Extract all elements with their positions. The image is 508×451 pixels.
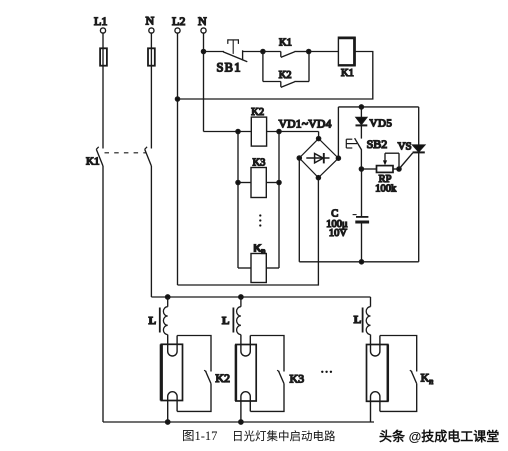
- contactor K1 main contact pole 2: [145, 147, 152, 166]
- svg-text:头条 @技成电工课堂: 头条 @技成电工课堂: [379, 429, 499, 444]
- starter contact K2 loop lamp1: [177, 336, 230, 412]
- wire N2 drop: [203, 33, 205, 131]
- svg-text:100k: 100k: [375, 183, 397, 194]
- fluorescent lamp 1: [161, 335, 182, 422]
- DC bottom rail: [299, 261, 418, 263]
- wire K2 coil to bridge: [267, 131, 319, 133]
- node VD5 tap: [359, 105, 363, 109]
- relay coil K3: [238, 157, 279, 197]
- fuse FU2: [148, 48, 155, 65]
- svg-text:VD1~VD4: VD1~VD4: [279, 118, 332, 130]
- contact K2 aux (NO) parallel branch: [263, 52, 309, 88]
- svg-text:SB1: SB1: [217, 60, 242, 74]
- node bridge right: [336, 156, 340, 160]
- svg-text:N: N: [198, 14, 207, 28]
- wire bridge right up to DC rail: [337, 107, 339, 158]
- vertical ellipsis between coils: [259, 214, 261, 226]
- bottom bus: [103, 421, 374, 423]
- wire K1 coil to return: [178, 52, 373, 100]
- wire N2 to SB1: [204, 51, 225, 53]
- svg-text:10V: 10V: [329, 228, 348, 239]
- node bridge bottom: [316, 176, 320, 180]
- svg-text:SB2: SB2: [367, 137, 388, 151]
- capacitor C 100u 10V: [326, 169, 369, 262]
- contactor K1 main contact pole 1: [86, 147, 103, 168]
- ballast L1 lamp1: [149, 297, 168, 335]
- svg-text:L2: L2: [172, 14, 185, 28]
- node C bottom: [359, 260, 363, 264]
- lamp bus: [151, 296, 370, 298]
- node bridge left: [297, 156, 301, 160]
- node parallel left: [261, 49, 265, 53]
- horizontal ellipsis between lamps: [321, 371, 332, 373]
- ballast L2 lamp2: [222, 297, 241, 335]
- svg-text:Kn: Kn: [421, 370, 434, 386]
- fuse FU1: [100, 48, 107, 65]
- node N2/SB1 junction: [201, 49, 205, 53]
- wire N2 to coil bus: [204, 131, 252, 133]
- svg-text:VS: VS: [398, 141, 412, 153]
- wire bridge left down rail: [298, 158, 300, 262]
- svg-text:K2: K2: [279, 70, 292, 81]
- relay coil K1: [338, 37, 356, 79]
- svg-text:C: C: [331, 208, 338, 219]
- relay coil Kn: [238, 243, 279, 283]
- wire to K1 coil: [309, 51, 339, 53]
- wire L2 drop: [177, 33, 179, 285]
- diode VD5: [356, 107, 393, 139]
- thyristor VS: [398, 107, 426, 262]
- wire L1 to bottom bus: [102, 166, 104, 422]
- node parallel right: [307, 49, 311, 53]
- node coil bus right top: [277, 129, 281, 133]
- svg-text:L: L: [222, 315, 229, 327]
- wire N1 drop to fuse: [150, 33, 152, 66]
- wire SB1 to K1 aux: [243, 51, 263, 53]
- wire N1 fuse to K1 contact: [150, 66, 152, 149]
- fluorescent lamp 3: [367, 335, 388, 422]
- svg-text:VD5: VD5: [370, 117, 393, 129]
- svg-text:图1-17: 图1-17: [182, 429, 217, 443]
- potentiometer RP 100k: [361, 153, 399, 194]
- DC top rail: [338, 106, 418, 108]
- pushbutton SB2 (NO): [346, 137, 387, 169]
- wire L1 drop to fuse: [102, 33, 104, 66]
- svg-text:L: L: [354, 314, 361, 326]
- svg-text:日光灯集中启动电路: 日光灯集中启动电路: [232, 429, 336, 443]
- node lamp2 tap: [239, 295, 243, 299]
- bridge rectifier VD1-VD4: [299, 132, 338, 178]
- node RP right / gate junction: [397, 167, 401, 171]
- starter contact Kn loop lamp3: [380, 336, 433, 412]
- node K3 left: [236, 180, 240, 184]
- svg-text:K2: K2: [251, 107, 264, 118]
- svg-text:K3: K3: [253, 157, 266, 168]
- coil bus left: [237, 132, 239, 269]
- terminal N (2nd): [198, 14, 207, 33]
- node SB2/RP junction: [359, 167, 363, 171]
- svg-text:K1: K1: [341, 68, 354, 79]
- ballast L3 lamp3: [354, 297, 371, 335]
- wire N1 to lamp bus: [150, 166, 152, 297]
- node lamp1 bottom: [166, 420, 170, 424]
- svg-text:K3: K3: [290, 371, 305, 385]
- node lamp2 bottom: [239, 420, 243, 424]
- node coil bus left top: [236, 129, 240, 133]
- relay coil K2: [251, 107, 266, 146]
- svg-text:K1: K1: [279, 38, 292, 49]
- starter contact K3 loop lamp2: [250, 336, 304, 412]
- svg-text:K1: K1: [86, 156, 99, 168]
- svg-text:N: N: [146, 14, 155, 28]
- node bridge top: [317, 137, 321, 141]
- terminal L1: [94, 14, 107, 33]
- svg-text:K2: K2: [215, 371, 230, 385]
- node lamp1 tap: [166, 295, 170, 299]
- fluorescent lamp 2: [236, 335, 256, 422]
- pushbutton SB1 (NC): [217, 39, 248, 74]
- contact K1 aux (NO): [263, 38, 309, 58]
- coil bus right: [278, 132, 280, 269]
- wire L2 to bridge bottom: [178, 178, 319, 285]
- svg-text:L1: L1: [94, 14, 107, 28]
- terminal N (1st): [146, 14, 155, 34]
- node L2 return junction: [175, 97, 179, 101]
- node K3 right: [277, 180, 281, 184]
- K1 poles mechanical link (dashed): [105, 152, 147, 154]
- svg-text:L: L: [149, 315, 156, 327]
- terminal L2: [172, 14, 185, 33]
- wire L1 fuse to K1 contact: [102, 66, 104, 149]
